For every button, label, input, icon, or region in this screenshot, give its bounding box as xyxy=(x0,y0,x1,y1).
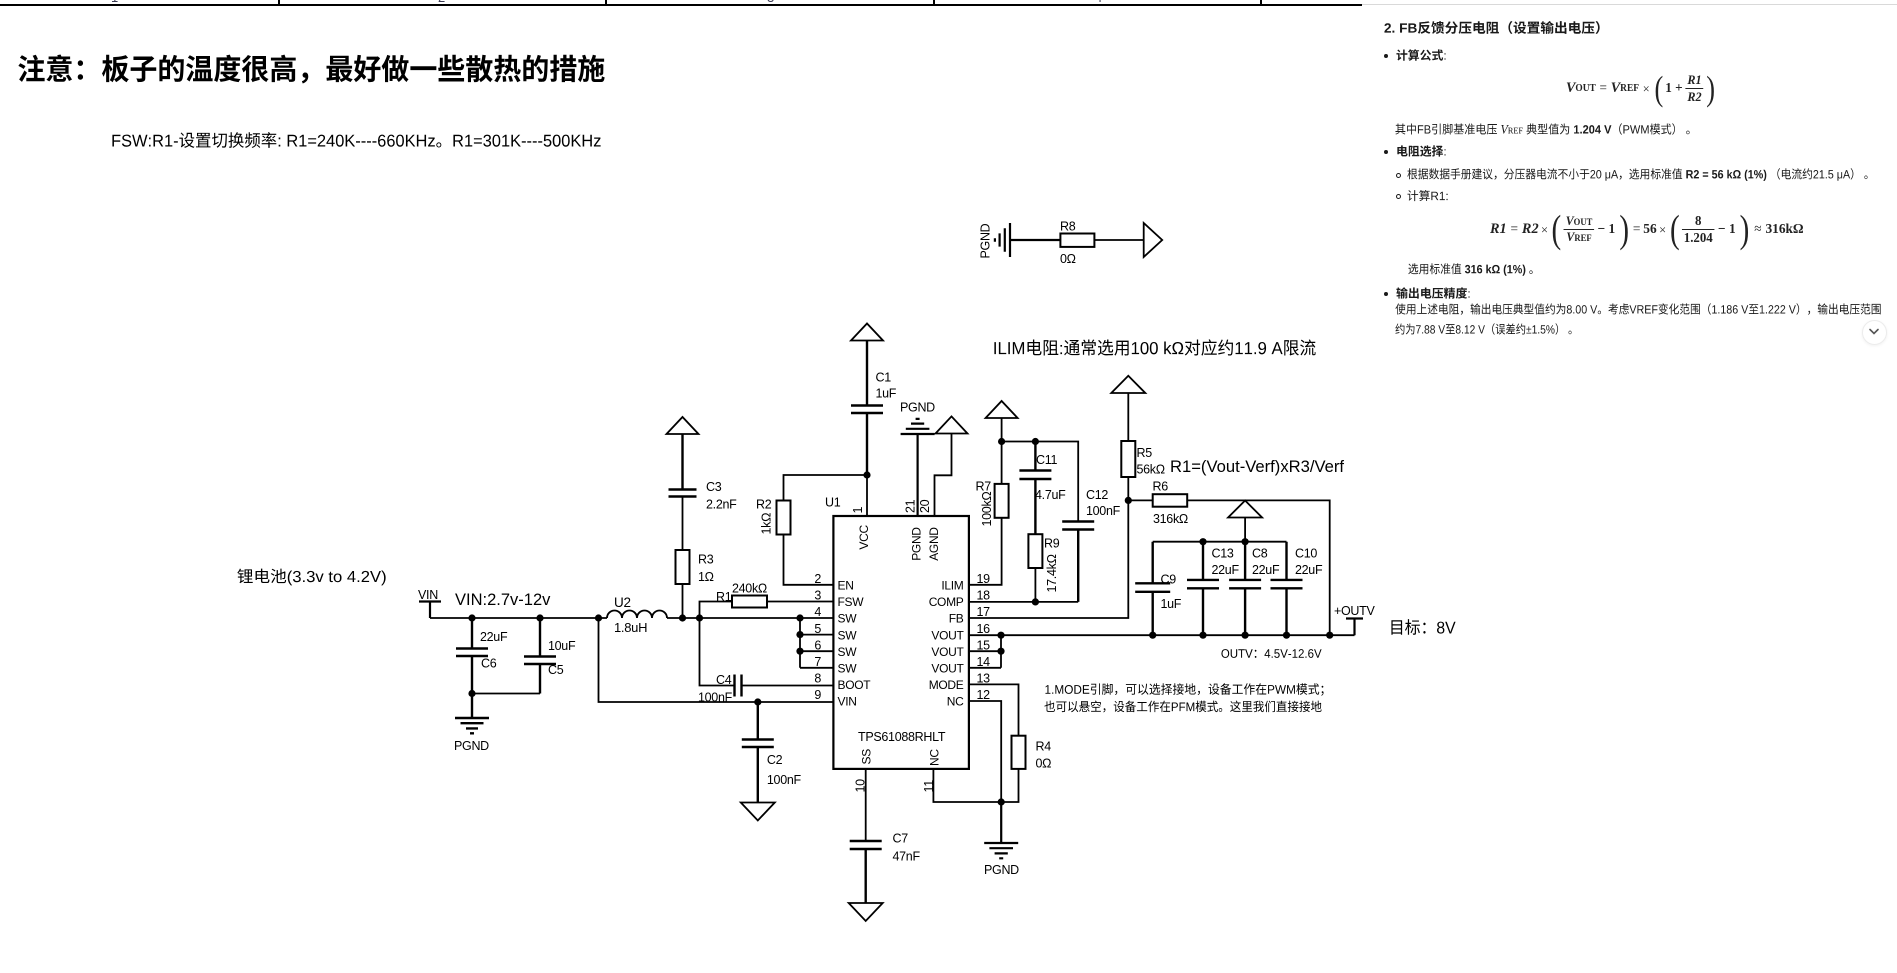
svg-text:100nF: 100nF xyxy=(767,773,802,787)
wire VCC to R2 top xyxy=(784,475,868,501)
resistor R8 xyxy=(1060,234,1094,247)
capacitor C8 xyxy=(1229,542,1261,636)
capacitor C1 xyxy=(851,341,883,476)
bullet dot 3 xyxy=(1384,292,1388,296)
wire NC pin12 xyxy=(969,701,1001,802)
capacitor C6 xyxy=(456,618,488,694)
ground PGND above pin21 xyxy=(901,419,935,516)
resistor R2 xyxy=(777,501,791,535)
ground PGND under C6 xyxy=(455,694,489,734)
svg-text:56kΩ: 56kΩ xyxy=(1137,463,1165,477)
junction dot SW/R3 xyxy=(679,614,686,621)
junction dot SW pin4 xyxy=(796,614,803,621)
wire VCC pin1 xyxy=(866,475,868,516)
IC U1 body TPS61088RHLT xyxy=(833,516,969,769)
junction dot comp rail C11 xyxy=(1032,438,1039,445)
battery annotation (paths) xyxy=(237,569,385,586)
wire VIN branch down to pin9 xyxy=(599,618,834,702)
junction dot SW pin5 xyxy=(796,631,803,638)
svg-text:C10: C10 xyxy=(1295,547,1317,561)
wire COMP pin18 xyxy=(969,601,1078,603)
resistor R7 xyxy=(995,484,1009,518)
junction dot SW pin6 xyxy=(796,648,803,655)
svg-text:PGND: PGND xyxy=(984,863,1019,877)
frame tick 2 xyxy=(605,0,607,6)
svg-text:R7: R7 xyxy=(976,480,992,494)
wire R8 to arrow xyxy=(1094,239,1143,241)
svg-text:20: 20 xyxy=(918,499,932,513)
MODE note line2 (paths) xyxy=(1044,701,1321,713)
resistor R1 xyxy=(732,596,767,608)
ground PGND below R4 junction xyxy=(984,802,1018,858)
svg-text:R2: R2 xyxy=(756,498,772,512)
wire VOUT pins chain xyxy=(969,635,1001,668)
svg-text:316kΩ: 316kΩ xyxy=(1153,512,1188,526)
svg-text:1: 1 xyxy=(851,507,865,514)
svg-text:COMP: COMP xyxy=(929,595,964,609)
wire R5 top to power xyxy=(1127,393,1129,500)
svg-text:14: 14 xyxy=(977,655,991,669)
wire output cap rail xyxy=(1153,541,1287,543)
svg-text:C4: C4 xyxy=(716,673,732,687)
sub bullet circle 2 xyxy=(1396,194,1401,199)
ground PGND rotated at R8 xyxy=(995,223,1061,257)
svg-text:NC: NC xyxy=(928,749,942,766)
sheet border top line (schematic frame) xyxy=(0,4,1362,6)
svg-text:R1: R1 xyxy=(716,590,732,604)
svg-text:21: 21 xyxy=(904,499,918,513)
right panel heading (paths) xyxy=(1384,21,1599,34)
junction dot SW/R1-C4 xyxy=(696,614,703,621)
svg-text:19: 19 xyxy=(977,572,991,586)
frame column digit 3 (clipped) xyxy=(767,0,774,5)
svg-text:C12: C12 xyxy=(1086,488,1108,502)
svg-text:18: 18 xyxy=(977,589,991,603)
target voltage annotation (paths) xyxy=(1391,619,1455,635)
junction dot VIN/C5 xyxy=(536,614,543,621)
capacitor C2 xyxy=(742,702,774,803)
inductor U2 xyxy=(607,611,667,619)
svg-text:4.7uF: 4.7uF xyxy=(1035,488,1066,502)
power flag above R5 xyxy=(1111,376,1145,393)
ground arrow under C2 xyxy=(741,803,775,821)
junction dot VIN/C2 xyxy=(754,698,761,705)
svg-text:SW: SW xyxy=(838,645,858,659)
ground arrow under C7 xyxy=(849,903,883,921)
junction dot VOUT chain pin16 xyxy=(997,632,1004,639)
capacitor C11 xyxy=(1019,442,1051,535)
wire R9 bottom to COMP xyxy=(1034,568,1036,602)
svg-text:C9: C9 xyxy=(1161,573,1177,587)
wire NC pin11 xyxy=(933,769,1001,802)
svg-text:2: 2 xyxy=(814,572,821,586)
svg-text:22uF: 22uF xyxy=(1212,563,1240,577)
resistor R6 xyxy=(1153,494,1188,507)
svg-text:C7: C7 xyxy=(893,832,909,846)
svg-text:C2: C2 xyxy=(767,753,783,767)
svg-text:240kΩ: 240kΩ xyxy=(732,582,767,596)
svg-text:1Ω: 1Ω xyxy=(698,570,714,584)
svg-text:PGND: PGND xyxy=(454,739,489,753)
capacitor C4 xyxy=(735,675,742,697)
junction dot VIN/C6 xyxy=(468,614,475,621)
svg-text:R9: R9 xyxy=(1044,537,1060,551)
svg-text:PGND: PGND xyxy=(979,223,993,258)
sub item resistor choice (paths) xyxy=(1407,168,1867,181)
wire MODE pin13 to R4 xyxy=(969,684,1019,735)
wire VOUT rail xyxy=(969,634,1355,636)
resistor R4 xyxy=(1012,736,1026,769)
svg-text:FSW: FSW xyxy=(838,595,865,609)
svg-text:3: 3 xyxy=(814,589,821,603)
power flag above C1 xyxy=(851,324,883,341)
svg-text:100nF: 100nF xyxy=(1086,504,1121,518)
frame column digit 2 (clipped) xyxy=(438,0,445,5)
svg-text:R8: R8 xyxy=(1060,220,1076,234)
svg-text:13: 13 xyxy=(977,672,991,686)
sub item compute R1 (paths) xyxy=(1407,190,1447,201)
svg-text:5: 5 xyxy=(814,622,821,636)
svg-text:11: 11 xyxy=(922,780,936,793)
wire R2 bottom to EN xyxy=(784,535,834,585)
power flag on cap rail xyxy=(1228,501,1262,542)
power flag above C3 xyxy=(667,417,699,434)
junction dot NC/R4/gnd xyxy=(998,798,1005,805)
svg-text:NC: NC xyxy=(947,695,964,709)
resistor R3 xyxy=(682,497,684,618)
svg-text:+OUTV: +OUTV xyxy=(1334,604,1375,618)
node +OUTV output port xyxy=(1346,619,1363,636)
R1 formula annotation xyxy=(1170,457,1344,477)
wire inductor to IC SW xyxy=(667,617,833,619)
svg-text:C6: C6 xyxy=(481,657,497,671)
junction dot comp rail R7 xyxy=(998,438,1005,445)
bullet dot 2 xyxy=(1384,150,1388,154)
svg-text:R4: R4 xyxy=(1036,740,1052,754)
svg-text:100kΩ: 100kΩ xyxy=(980,492,994,527)
svg-text:MODE: MODE xyxy=(929,678,964,692)
svg-text:2.2nF: 2.2nF xyxy=(706,498,737,512)
junction dot VIN branch xyxy=(595,614,602,621)
capacitor C13 xyxy=(1187,542,1219,636)
svg-text:9: 9 xyxy=(814,688,821,702)
VIN range annotation xyxy=(455,591,550,610)
bullet item 电阻选择 (paths) xyxy=(1397,145,1445,156)
svg-text:8: 8 xyxy=(814,672,821,686)
svg-text:BOOT: BOOT xyxy=(838,678,872,692)
frame column digit 4 (clipped) xyxy=(1095,0,1102,5)
junction dot VOUT/C9 xyxy=(1149,632,1156,639)
svg-text:47nF: 47nF xyxy=(893,850,921,864)
output arrow right of R8 xyxy=(1144,223,1163,257)
junction dot VCC/R2 xyxy=(863,471,870,478)
node VIN input port xyxy=(419,602,441,619)
svg-text:6: 6 xyxy=(814,638,821,652)
svg-text:ILIM: ILIM xyxy=(941,579,963,593)
resistor R9 xyxy=(1028,534,1042,568)
svg-text:SW: SW xyxy=(838,628,858,642)
svg-text:C8: C8 xyxy=(1252,547,1268,561)
capacitor C5 xyxy=(524,618,556,694)
svg-text:0Ω: 0Ω xyxy=(1060,252,1076,266)
wire ILIM pin19 to R7 xyxy=(969,518,1002,585)
svg-text:22uF: 22uF xyxy=(1295,563,1323,577)
svg-text:C1: C1 xyxy=(876,371,892,385)
svg-text:U2: U2 xyxy=(614,595,631,610)
paragraph accuracy line2 (paths) xyxy=(1395,323,1571,335)
svg-text:AGND: AGND xyxy=(927,527,941,561)
right panel top divider xyxy=(1362,4,1897,5)
svg-text:10uF: 10uF xyxy=(548,639,576,653)
svg-text:1kΩ: 1kΩ xyxy=(760,513,774,535)
svg-text:SS: SS xyxy=(860,749,874,765)
sub bullet circle 1 xyxy=(1396,173,1401,178)
junction dot cap rail C13 xyxy=(1199,538,1206,545)
wire compensation rail xyxy=(1002,442,1079,522)
svg-text:EN: EN xyxy=(838,579,854,593)
svg-text:4: 4 xyxy=(814,605,821,619)
svg-text:C11: C11 xyxy=(1036,453,1057,467)
capacitor C7 xyxy=(850,841,882,903)
MODE note line1 (paths) xyxy=(1045,683,1323,696)
wire SS pin10 to C7 xyxy=(865,769,867,841)
frame tick 3 xyxy=(933,0,935,6)
wire VIN rail xyxy=(430,617,607,619)
svg-text:VIN: VIN xyxy=(418,588,438,602)
svg-text:TPS61088RHLT: TPS61088RHLT xyxy=(858,730,946,744)
paragraph accuracy line1 (paths) xyxy=(1395,303,1880,315)
capacitor C9 xyxy=(1135,542,1170,636)
wire R1 branch xyxy=(700,602,834,619)
svg-text:1uF: 1uF xyxy=(876,387,897,401)
capacitor C10 xyxy=(1271,542,1303,636)
svg-text:22uF: 22uF xyxy=(1252,563,1280,577)
svg-text:PGND: PGND xyxy=(900,401,935,415)
svg-text:FB: FB xyxy=(949,612,964,626)
svg-text:VOUT: VOUT xyxy=(931,662,964,676)
svg-text:17: 17 xyxy=(977,605,991,619)
formula Vout = Vref x (1 + R1/R2) xyxy=(1566,72,1726,106)
junction dot VOUT/C10 xyxy=(1283,632,1290,639)
bullet dot 1 xyxy=(1384,54,1388,58)
wire R4 bottom xyxy=(1001,769,1018,802)
junction dot VOUT/C13 xyxy=(1199,632,1206,639)
svg-text:17.4kΩ: 17.4kΩ xyxy=(1045,554,1059,592)
bullet item 计算公式 (paths) xyxy=(1396,49,1445,60)
FSW note text (paths) xyxy=(112,132,600,148)
power flag AGND xyxy=(936,416,968,433)
svg-text:VOUT: VOUT xyxy=(931,628,964,642)
junction dot VOUT/R6 xyxy=(1326,632,1333,639)
junction dot cap rail C8 xyxy=(1242,538,1249,545)
svg-text:1uF: 1uF xyxy=(1161,597,1182,611)
power flag above R7 xyxy=(986,401,1018,442)
svg-text:R3: R3 xyxy=(698,553,714,567)
svg-text:U1: U1 xyxy=(825,496,841,510)
resistor R5 xyxy=(1121,441,1135,477)
wire AGND pin20 with step xyxy=(935,434,952,517)
svg-text:1.8uH: 1.8uH xyxy=(614,620,647,635)
wire R7 top to rail xyxy=(1001,442,1003,484)
svg-text:R6: R6 xyxy=(1153,480,1169,494)
junction dot COMP/R9 xyxy=(1032,598,1039,605)
svg-text:VOUT: VOUT xyxy=(931,645,964,659)
wire C4 branch xyxy=(700,618,834,686)
capacitor C12 xyxy=(1062,522,1094,602)
OUTV range annotation (paths) xyxy=(1221,649,1321,658)
frame tick 1 xyxy=(278,0,280,6)
junction dot C6 gnd xyxy=(468,690,475,697)
svg-text:R5: R5 xyxy=(1137,446,1153,460)
wire SW pins chain xyxy=(800,618,833,668)
svg-text:100nF: 100nF xyxy=(698,691,733,705)
frame tick 4 xyxy=(1260,0,1262,6)
svg-text:15: 15 xyxy=(977,638,991,652)
bullet item 输出电压精度 (paths) xyxy=(1396,287,1469,298)
junction dot VOUT chain pin15 xyxy=(997,648,1004,655)
paragraph FB reference voltage (paths) xyxy=(1395,123,1689,135)
svg-text:VIN: VIN xyxy=(838,695,857,709)
svg-text:C5: C5 xyxy=(548,663,564,677)
chevron scroll button xyxy=(1862,320,1887,345)
svg-text:0Ω: 0Ω xyxy=(1036,757,1052,771)
frame column digit 1 (clipped) xyxy=(111,0,118,5)
wire FB pin17 to divider xyxy=(969,500,1128,618)
svg-text:C3: C3 xyxy=(706,480,722,494)
svg-text:16: 16 xyxy=(977,622,991,636)
junction dot VOUT/C8 xyxy=(1242,632,1249,639)
svg-text:VCC: VCC xyxy=(857,525,871,550)
ILIM annotation (paths) xyxy=(994,339,1315,355)
wire R6 right to VOUT xyxy=(1187,500,1330,635)
formula R1 = R2 x (Vout/Vref - 1) xyxy=(1490,212,1818,248)
note title text (paths) xyxy=(18,55,604,84)
junction dot FB/R5/R6 xyxy=(1125,497,1132,504)
capacitor C3 xyxy=(669,434,697,497)
svg-text:10: 10 xyxy=(854,779,868,793)
svg-text:SW: SW xyxy=(838,612,858,626)
paragraph standard value (paths) xyxy=(1408,263,1532,276)
svg-text:SW: SW xyxy=(838,662,858,676)
wire R5/R6 junction to R6 xyxy=(1128,499,1152,501)
svg-text:7: 7 xyxy=(814,655,821,669)
svg-text:PGND: PGND xyxy=(910,527,924,561)
wire C6 to C5 bottom xyxy=(472,693,540,695)
svg-text:22uF: 22uF xyxy=(480,630,508,644)
svg-text:C13: C13 xyxy=(1212,547,1234,561)
svg-text:12: 12 xyxy=(977,688,991,702)
